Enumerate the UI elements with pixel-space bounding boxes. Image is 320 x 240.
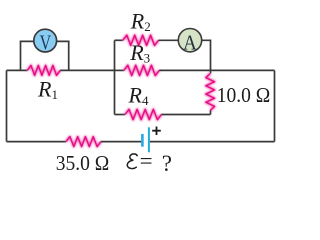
wire: ammeter to right node, down to R3 line — [201, 40, 211, 70]
wire: 10 ohm bottom stub to R4 line — [210, 111, 212, 115]
resistor 10.0 ohm glow — [206, 74, 215, 111]
resistor R1 glow — [27, 65, 60, 75]
wire: R3 line from resistor to outer right rail — [159, 69, 274, 71]
svg-text:10.0 Ω: 10.0 Ω — [217, 83, 270, 107]
wire: voltmeter loop left vertical — [21, 41, 35, 70]
wire: voltmeter loop right vertical — [56, 41, 69, 70]
svg-text:=: = — [140, 148, 153, 173]
resistor 10.0 ohm — [206, 74, 215, 111]
voltmeter V letter — [40, 31, 52, 55]
wire: R3 branch left stub — [115, 69, 124, 71]
wire: R2 branch left stub — [115, 39, 123, 41]
voltmeter V body — [34, 29, 57, 52]
wire: R4 branch left stub — [115, 114, 126, 116]
resistor R4 — [125, 109, 161, 119]
wire: parallel block left rail — [114, 40, 116, 114]
wire: R1 line right segment to junction node — [60, 69, 114, 71]
resistor R1 — [27, 65, 60, 75]
resistor 35.0 ohm glow — [66, 137, 101, 147]
svg-text:35.0 Ω: 35.0 Ω — [56, 151, 110, 175]
wire: bottom wire right of battery — [150, 141, 275, 143]
resistor R4 glow — [125, 109, 161, 119]
wire: 10 ohm top stub from R3 line — [210, 70, 212, 73]
wire: bottom wire between 35ohm and battery — [101, 141, 142, 143]
resistor 35.0 ohm — [66, 137, 101, 147]
ammeter A body — [178, 29, 201, 52]
battery EMF: short negative plate — [141, 134, 144, 147]
ammeter A letter — [183, 31, 197, 54]
resistor R2 glow — [123, 35, 159, 45]
svg-text:A: A — [183, 31, 197, 54]
wire: outer left rail — [6, 70, 8, 141]
wire: bottom wire left of 35ohm resistor — [7, 141, 67, 143]
wire: R4 branch right segment to 10 ohm bottom — [161, 114, 210, 116]
resistor R3 glow — [124, 65, 159, 75]
resistor R3 — [124, 65, 159, 75]
svg-text:?: ? — [162, 151, 172, 176]
wire: outer right rail — [274, 70, 276, 141]
wire: R2 branch between resistor and ammeter — [159, 39, 180, 41]
resistor R2 — [123, 35, 159, 45]
battery plus sign — [152, 127, 161, 136]
wire: R1 line left stub — [7, 69, 28, 71]
label EMF script E — [127, 154, 137, 169]
battery EMF: long positive plate — [148, 127, 150, 152]
svg-text:V: V — [40, 31, 52, 55]
